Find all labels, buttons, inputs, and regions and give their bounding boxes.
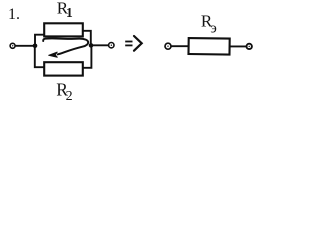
node B (right junction dot): [89, 43, 94, 48]
svg-text:2: 2: [66, 89, 73, 104]
svg-text:э: э: [210, 20, 216, 36]
resistor R2: [44, 62, 83, 75]
terminal (left input of parallel circuit): [10, 43, 15, 48]
wire (node A down to R2 left lead): [35, 46, 44, 67]
terminal (left input of equivalent circuit): [165, 43, 171, 49]
resistor R1: [44, 23, 83, 36]
wire (left terminal to Rэ): [172, 45, 189, 47]
node A (left junction dot): [33, 44, 38, 49]
wire (R1 right lead down to node B): [83, 31, 91, 44]
label R1: [57, 0, 73, 20]
wire (left terminal to node A): [16, 45, 34, 47]
label R2: [56, 79, 72, 104]
terminal (right output of parallel circuit): [109, 43, 114, 48]
wire (node A up to R1 left lead): [35, 35, 44, 46]
symbol => (equivalence arrow): [125, 36, 142, 51]
svg-text:1.: 1.: [8, 6, 20, 23]
svg-text:1: 1: [66, 5, 73, 20]
wire (Rэ to right terminal): [230, 45, 246, 47]
wire (node B to right terminal): [93, 44, 108, 46]
wire (R2 right lead up to node B): [83, 47, 91, 67]
resistor Rэ (equivalent resistor): [188, 38, 229, 55]
terminal (right output of equivalent circuit): [247, 44, 252, 49]
label Rэ: [201, 11, 217, 36]
arrow (curved fold arrow: combine R1 into R2): [43, 38, 88, 57]
